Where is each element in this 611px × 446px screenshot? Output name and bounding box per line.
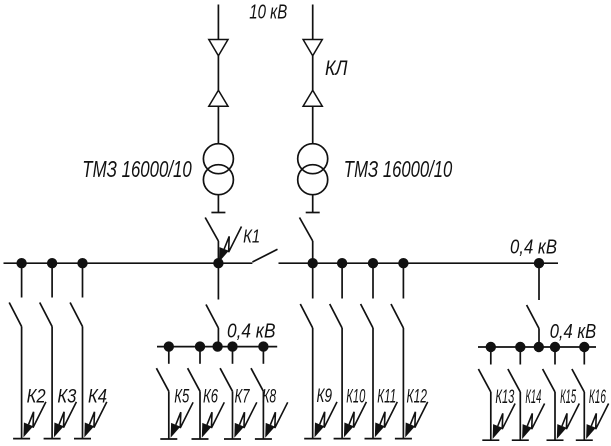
arrester right up triangle (303, 90, 322, 106)
svg-text:К15: К15 (560, 386, 576, 408)
middle sub-bus dot 4 (227, 341, 237, 351)
svg-text:К11: К11 (377, 385, 396, 407)
terminal tick К14 (512, 439, 529, 441)
switch blade К4 (70, 303, 82, 327)
svg-text:К2: К2 (27, 385, 46, 407)
wire feeder К13 lower (490, 392, 492, 440)
wire feeder К3 stub (51, 263, 53, 297)
svg-text:К1: К1 (243, 226, 260, 247)
terminal tick К9 (304, 438, 321, 440)
svg-text:К14: К14 (525, 386, 541, 408)
switch blade К14 (508, 369, 520, 392)
bus junction dot 1 (16, 258, 26, 268)
switch blade К12 (391, 304, 403, 328)
svg-text:ТМЗ 16000/10: ТМЗ 16000/10 (344, 156, 453, 182)
transformer T1 secondary winding (203, 165, 233, 195)
wire feeder К4 stub (82, 263, 84, 297)
wire feeder К12 stub (402, 263, 404, 298)
label K1 (243, 226, 260, 247)
switch blade К10 (330, 304, 342, 328)
bus tie switch blade (252, 249, 277, 262)
wire feeder К8 stub (262, 347, 264, 364)
terminal tick К10 (334, 438, 351, 440)
label К4 (88, 385, 107, 407)
switch blade К5 (156, 368, 168, 391)
short-circuit arrow К16 (586, 404, 609, 440)
label К2 (27, 385, 46, 407)
label К14 (525, 386, 541, 408)
short-circuit arrow К7 (234, 402, 256, 438)
bus junction dot 8 (398, 258, 408, 268)
svg-text:К3: К3 (57, 385, 76, 407)
short-circuit arrow К14 (522, 404, 545, 440)
short-circuit arrow К5 (171, 402, 194, 438)
wire feeder К15 lower (554, 392, 556, 440)
label К9 (317, 385, 333, 407)
short-circuit arrow К11 (375, 402, 398, 438)
svg-text:КЛ: КЛ (325, 57, 348, 80)
terminal tick К6 (192, 438, 209, 440)
short-circuit arrow К10 (344, 402, 367, 438)
label К8 (262, 386, 276, 408)
label К12 (407, 385, 428, 407)
bus junction dot 4 (213, 258, 223, 268)
svg-text:К5: К5 (174, 386, 189, 408)
wire feeder К6 stub (199, 347, 201, 364)
bus junction dot 6 (337, 258, 347, 268)
short-circuit arrow К2 (23, 402, 46, 438)
terminal tick К2 (13, 438, 30, 440)
wire feeder К7 lower (232, 391, 234, 439)
terminal tick К12 (395, 438, 412, 440)
short-circuit arrow К12 (405, 402, 428, 438)
label 10 kV (249, 1, 287, 23)
middle sub-bus dot 2 (195, 341, 205, 351)
wire middle drop lower (217, 328, 219, 347)
label К10 (346, 385, 365, 407)
switch blade К15 (543, 369, 555, 392)
svg-text:К7: К7 (235, 386, 251, 408)
terminal tick К4 (74, 438, 91, 440)
wire middle drop stub (217, 263, 219, 299)
svg-text:К4: К4 (88, 385, 107, 407)
wire feeder К11 lower (372, 328, 374, 439)
short-circuit arrow К6 (202, 402, 225, 438)
wire feeder К11 stub (372, 263, 374, 298)
wire feeder К9 stub (312, 263, 314, 298)
short-circuit arrow К3 (54, 402, 77, 438)
svg-text:ТМЗ 16000/10: ТМЗ 16000/10 (82, 156, 192, 182)
right sub-bus dot 5 (579, 342, 589, 352)
wire right drop stub (538, 263, 540, 300)
wire QF2 right incomer to bus (312, 241, 314, 263)
switch blade К2 (9, 303, 21, 327)
label KL cable (325, 57, 348, 80)
wire right to transformer (312, 106, 314, 144)
svg-text:К8: К8 (262, 386, 276, 408)
terminal tick К7 (224, 438, 241, 440)
wire feeder К14 stub (519, 347, 521, 365)
switch blade К3 (40, 303, 52, 327)
wire right between triangles (312, 56, 314, 90)
switch blade К8 (251, 368, 263, 391)
bus 0.4kV left section (4, 262, 253, 264)
switch blade right drop (527, 305, 539, 329)
svg-text:К13: К13 (495, 386, 514, 408)
wire feeder К9 lower (312, 328, 314, 439)
wire right 10kV drop top (312, 5, 314, 40)
label T2 TMZ 16000/10 (344, 156, 453, 182)
wire feeder К15 stub (554, 347, 556, 365)
wire QF2 right incomer transformer secondary lead (312, 195, 314, 213)
wire feeder К7 stub (232, 347, 234, 364)
short-circuit arrow К15 (557, 404, 580, 440)
bus 0.4kV right section (279, 262, 559, 264)
bus junction dot 7 (368, 258, 378, 268)
svg-text:0,4 кВ: 0,4 кВ (227, 321, 276, 343)
wire feeder К5 stub (168, 347, 170, 364)
wire feeder К13 stub (490, 347, 492, 365)
wire left between triangles (217, 56, 219, 90)
terminal tick К8 (255, 438, 272, 440)
wire feeder К8 lower (262, 391, 264, 439)
label К7 (235, 386, 251, 408)
breaker blade QF2 right incomer (300, 218, 313, 242)
wire feeder К10 stub (341, 263, 343, 298)
label 0,4 kV right sub-bus (550, 321, 597, 343)
arrester right down triangle (303, 40, 322, 56)
terminal tick К13 (482, 439, 499, 441)
right sub-bus dot 1 (486, 342, 496, 352)
svg-text:10 кВ: 10 кВ (249, 1, 287, 23)
wire left to transformer (217, 106, 219, 144)
svg-text:К16: К16 (589, 386, 606, 408)
transformer T2 secondary winding (298, 165, 328, 195)
wire feeder К2 stub (21, 263, 23, 297)
middle sub-bus dot 3 (212, 341, 222, 351)
bus junction dot 5 (308, 258, 318, 268)
label К5 (174, 386, 189, 408)
right sub-bus dot 2 (515, 342, 525, 352)
wire feeder К12 lower (402, 328, 404, 439)
label К11 (377, 385, 396, 407)
middle sub-bus dot 5 (258, 341, 268, 351)
terminal tick К11 (365, 438, 382, 440)
svg-text:К10: К10 (346, 385, 365, 407)
label К3 (57, 385, 76, 407)
wire QF1 left incomer to bus (217, 241, 219, 263)
contact tick QF2 right incomer (306, 212, 320, 214)
transformer T1 primary winding (203, 144, 233, 174)
wire feeder К14 lower (519, 392, 521, 440)
bus junction dot 2 (47, 258, 57, 268)
transformer T2 primary winding (298, 144, 328, 174)
arrester left up triangle (209, 90, 228, 106)
wire feeder К4 lower (82, 327, 84, 439)
contact tick QF1 left incomer (211, 212, 225, 214)
bus junction dot 3 (77, 258, 87, 268)
label T1 TMZ 16000/10 (82, 156, 192, 182)
switch blade К7 (220, 368, 232, 391)
switch blade К9 (300, 304, 312, 328)
short-circuit arrow К4 (84, 402, 107, 438)
middle sub-bus dot 1 (164, 341, 174, 351)
label 0,4 kV main bus (510, 237, 557, 259)
switch blade middle drop (206, 305, 218, 329)
label К13 (495, 386, 514, 408)
right sub-bus dot 3 (534, 342, 544, 352)
label К15 (560, 386, 576, 408)
terminal tick К5 (160, 438, 177, 440)
label К6 (203, 386, 218, 408)
wire feeder К5 lower (168, 391, 170, 439)
short-circuit arrow К8 (265, 402, 288, 438)
label 0,4 kV middle sub-bus (227, 321, 276, 343)
svg-text:К9: К9 (317, 385, 333, 407)
label К16 (589, 386, 606, 408)
wire feeder К2 lower (21, 327, 23, 439)
short-circuit arrow К9 (315, 402, 338, 438)
wire right drop lower (538, 329, 540, 348)
wire QF1 left incomer transformer secondary lead (217, 195, 219, 213)
switch blade К16 (572, 369, 584, 392)
wire feeder К10 lower (341, 328, 343, 439)
sub-bus 0.4kV right (478, 346, 596, 348)
short-circuit arrow K1 (219, 227, 242, 263)
right sub-bus dot 4 (550, 342, 560, 352)
svg-text:0,4 кВ: 0,4 кВ (510, 237, 557, 259)
arrester left down triangle (209, 40, 228, 56)
terminal tick К3 (44, 438, 61, 440)
wire feeder К3 lower (51, 327, 53, 439)
sub-bus 0.4kV middle (157, 346, 277, 348)
breaker blade QF1 left incomer (205, 218, 218, 242)
svg-text:К6: К6 (203, 386, 218, 408)
terminal tick К16 (576, 439, 593, 441)
switch blade К13 (478, 369, 490, 392)
wire feeder К16 stub (583, 347, 585, 365)
svg-text:К12: К12 (407, 385, 428, 407)
switch blade К11 (361, 304, 373, 328)
wire feeder К16 lower (583, 392, 585, 440)
wire left 10kV drop top (217, 5, 219, 40)
bus junction dot 9 (534, 258, 544, 268)
wire feeder К6 lower (199, 391, 201, 439)
terminal tick К15 (547, 439, 564, 441)
svg-text:0,4 кВ: 0,4 кВ (550, 321, 597, 343)
short-circuit arrow К13 (493, 404, 515, 440)
switch blade К6 (188, 368, 200, 391)
